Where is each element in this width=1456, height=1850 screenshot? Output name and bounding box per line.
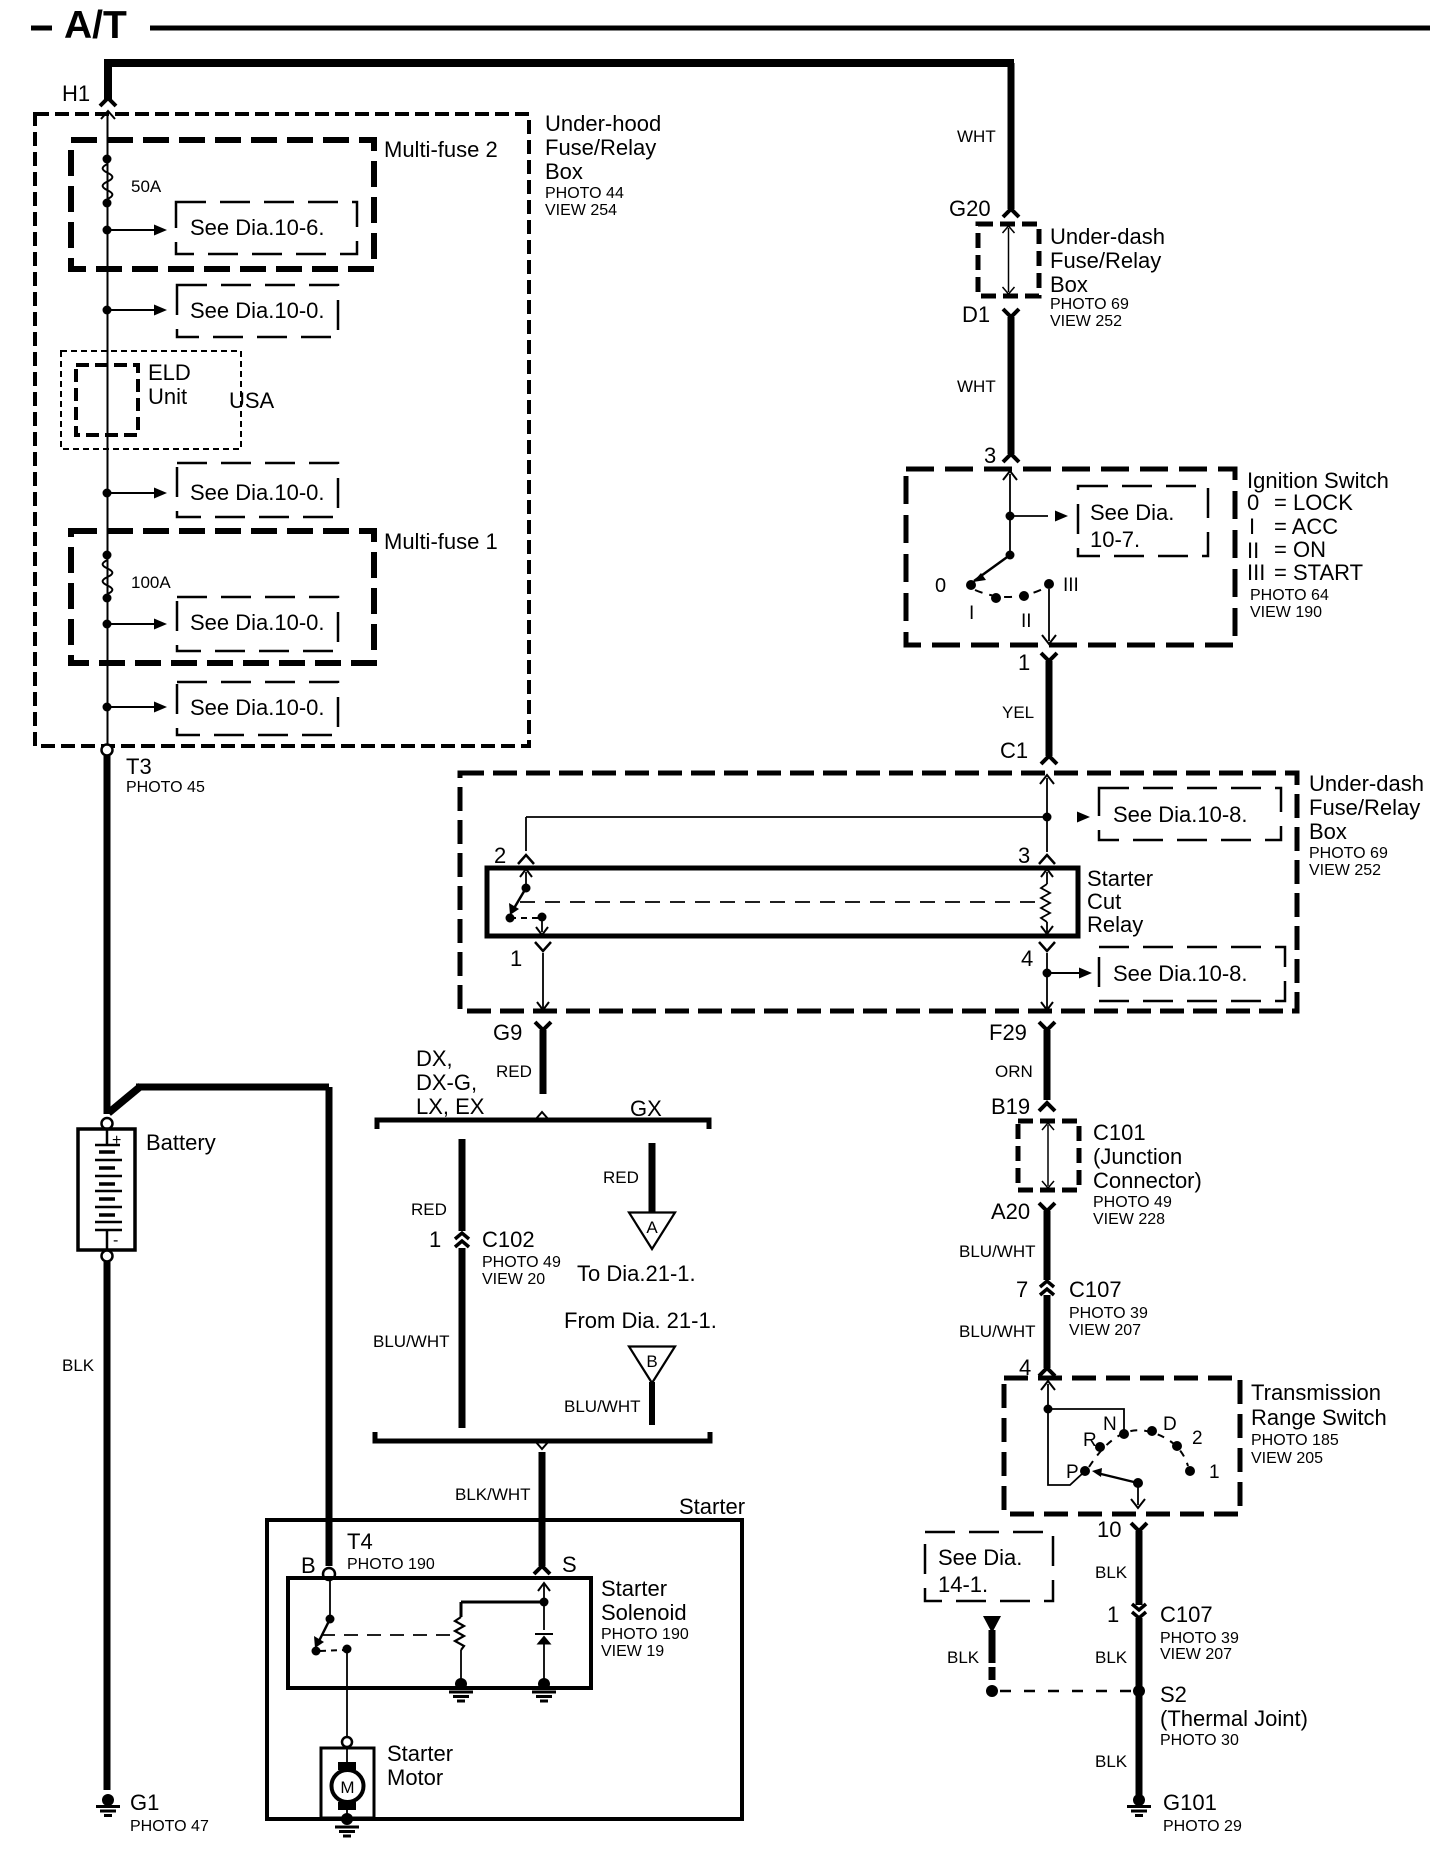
label S2 thermal joint xyxy=(1160,1682,1308,1749)
svg-text:BLK/WHT: BLK/WHT xyxy=(455,1485,531,1504)
wire battery feed trunk (thick top) xyxy=(104,59,1014,209)
svg-text:See Dia.10-8.: See Dia.10-8. xyxy=(1113,802,1248,827)
svg-text:III: III xyxy=(1247,560,1265,585)
connector C107 pin 1 xyxy=(1107,1602,1146,1627)
svg-text:Fuse/Relay: Fuse/Relay xyxy=(545,135,656,160)
wire BLK TRS to C107 xyxy=(1136,1531,1143,1605)
svg-text:Motor: Motor xyxy=(387,1765,443,1790)
svg-text:BLK: BLK xyxy=(1095,1563,1128,1582)
svg-text:-: - xyxy=(113,1232,118,1249)
svg-text:PHOTO 190: PHOTO 190 xyxy=(347,1556,435,1573)
relay pin 2 xyxy=(494,843,534,868)
svg-text:+: + xyxy=(112,1132,121,1149)
svg-text:10: 10 xyxy=(1097,1517,1121,1542)
svg-text:N: N xyxy=(1103,1414,1117,1435)
ignition switch box xyxy=(906,469,1235,645)
starter cut relay switch xyxy=(506,869,549,935)
see dia 10-0 box first xyxy=(177,285,338,337)
svg-text:DX-G,: DX-G, xyxy=(416,1070,477,1095)
connector G9 xyxy=(493,1020,551,1045)
svg-text:VIEW 20: VIEW 20 xyxy=(482,1271,545,1288)
svg-text:14-1.: 14-1. xyxy=(938,1572,988,1597)
connector G20 xyxy=(949,196,1019,221)
wire WHT D1 to ignition xyxy=(1008,317,1015,454)
connector A20 xyxy=(991,1199,1055,1224)
see dia 10-6 box xyxy=(176,202,357,254)
wire dashed S2 joint xyxy=(1000,1690,1133,1693)
ignition contact 0 xyxy=(935,575,976,597)
svg-text:PHOTO 64: PHOTO 64 xyxy=(1250,587,1329,604)
svg-text:G101: G101 xyxy=(1163,1790,1217,1815)
label ELD unit xyxy=(148,360,191,409)
battery negative plate xyxy=(95,1230,122,1262)
svg-text:(Junction: (Junction xyxy=(1093,1144,1182,1169)
node branch to dia 10-0 fourth xyxy=(103,703,112,712)
label DX DX-G LX EX xyxy=(416,1046,485,1119)
ignition contact II xyxy=(1019,591,1032,632)
svg-text:PHOTO 69: PHOTO 69 xyxy=(1309,845,1388,862)
label C101 junction connector xyxy=(1093,1120,1202,1228)
svg-text:1: 1 xyxy=(1018,650,1030,675)
connector C107 pin 7 xyxy=(1016,1277,1054,1302)
terminal S starter xyxy=(534,1552,577,1577)
svg-text:A/T: A/T xyxy=(64,4,127,47)
wire coil to S branch xyxy=(461,1601,544,1604)
TRS contact N xyxy=(1103,1414,1129,1439)
svg-text:T3: T3 xyxy=(126,754,152,779)
svg-text:BLK: BLK xyxy=(62,1356,95,1375)
svg-text:II: II xyxy=(1021,611,1032,632)
svg-text:1: 1 xyxy=(1107,1602,1119,1627)
starter solenoid box xyxy=(288,1578,591,1688)
svg-text:= LOCK: = LOCK xyxy=(1274,490,1353,515)
svg-text:2: 2 xyxy=(494,843,506,868)
svg-text:See Dia.10-0.: See Dia.10-0. xyxy=(190,480,325,505)
ignition contact I xyxy=(969,593,1001,624)
svg-text:From Dia. 21-1.: From Dia. 21-1. xyxy=(564,1308,717,1333)
wire arrow to see dia 10-0 second xyxy=(107,488,167,499)
wire S2 to G101 BLK xyxy=(1136,1694,1143,1795)
svg-text:= ON: = ON xyxy=(1274,537,1326,562)
svg-text:See Dia.: See Dia. xyxy=(938,1545,1022,1570)
see dia 10-0 box second xyxy=(177,463,338,517)
starter box xyxy=(267,1520,742,1819)
svg-text:Box: Box xyxy=(1309,819,1347,844)
connector C1 xyxy=(1000,738,1057,764)
svg-text:Relay: Relay xyxy=(1087,912,1143,937)
svg-text:Unit: Unit xyxy=(148,384,187,409)
svg-text:S2: S2 xyxy=(1160,1682,1187,1707)
ground starter motor xyxy=(335,1813,359,1836)
svg-text:A: A xyxy=(646,1218,658,1237)
TRS contact P xyxy=(1066,1462,1090,1483)
TRS contact R xyxy=(1083,1430,1105,1452)
off-page triangle A to dia 21-1 xyxy=(629,1213,675,1250)
svg-text:WHT: WHT xyxy=(957,127,996,146)
label ignition switch legend xyxy=(1247,468,1389,621)
solenoid S internal wire xyxy=(538,1583,550,1630)
wire G9 RED xyxy=(540,1030,547,1094)
wire battery positive branch to starter B xyxy=(109,1086,330,1566)
under-hood fuse/relay box xyxy=(35,114,529,746)
wire stub from dia 14-1 BLK xyxy=(983,1616,1001,1680)
wire ignition III to pin 1 xyxy=(1042,589,1056,644)
wire GX branch RED xyxy=(649,1143,656,1212)
svg-text:VIEW 205: VIEW 205 xyxy=(1251,1450,1323,1467)
svg-text:Under-dash: Under-dash xyxy=(1309,771,1424,796)
svg-text:To Dia.21-1.: To Dia.21-1. xyxy=(577,1261,696,1286)
wire YEL xyxy=(1046,661,1053,756)
fuse 50A xyxy=(103,155,162,208)
TRS wire to P side xyxy=(1048,1409,1083,1485)
TRS selector arm xyxy=(1092,1468,1143,1488)
wire F29 ORN xyxy=(1044,1030,1051,1100)
svg-text:Solenoid: Solenoid xyxy=(601,1600,687,1625)
solenoid coil xyxy=(455,1602,464,1682)
starter motor box xyxy=(321,1748,374,1818)
svg-text:Connector): Connector) xyxy=(1093,1168,1202,1193)
wire C102 branch RED xyxy=(459,1139,466,1231)
svg-text:PHOTO 69: PHOTO 69 xyxy=(1050,296,1129,313)
label C107 upper xyxy=(1069,1277,1148,1339)
label C102 xyxy=(482,1227,561,1288)
svg-text:VIEW 228: VIEW 228 xyxy=(1093,1211,1165,1228)
see dia 10-8 box upper xyxy=(1099,788,1281,840)
svg-text:Range Switch: Range Switch xyxy=(1251,1405,1387,1430)
svg-text:Starter: Starter xyxy=(601,1576,667,1601)
pin 1 ignition switch xyxy=(1018,650,1057,675)
terminal B starter xyxy=(301,1553,335,1580)
relay pin 1 xyxy=(510,942,551,1010)
svg-text:T4: T4 xyxy=(347,1529,373,1554)
svg-text:100A: 100A xyxy=(131,573,171,592)
ignition contact III xyxy=(1044,575,1079,596)
svg-text:Multi-fuse 2: Multi-fuse 2 xyxy=(384,137,498,162)
TRS contact D xyxy=(1147,1414,1177,1436)
solenoid dashed actuation link xyxy=(321,1634,452,1636)
svg-text:BLU/WHT: BLU/WHT xyxy=(959,1242,1036,1261)
svg-text:0: 0 xyxy=(1247,490,1259,515)
relay pin 4 xyxy=(1021,942,1055,1010)
svg-text:F29: F29 xyxy=(989,1020,1027,1045)
svg-text:C101: C101 xyxy=(1093,1120,1146,1145)
svg-text:VIEW 207: VIEW 207 xyxy=(1069,1322,1141,1339)
svg-text:PHOTO 190: PHOTO 190 xyxy=(601,1626,689,1643)
svg-text:PHOTO 49: PHOTO 49 xyxy=(1093,1194,1172,1211)
node S2 thermal joint xyxy=(1133,1685,1145,1697)
label G101 xyxy=(1163,1790,1242,1835)
node branch to dia 10-8 upper xyxy=(1043,813,1052,822)
svg-text:See Dia.10-0.: See Dia.10-0. xyxy=(190,610,325,635)
label G1 xyxy=(130,1790,209,1835)
svg-text:See Dia.: See Dia. xyxy=(1090,500,1174,525)
transmission range switch box xyxy=(1004,1378,1240,1514)
TRS pin4 wire in xyxy=(1041,1381,1055,1407)
svg-text:I: I xyxy=(1249,514,1255,539)
svg-text:BLU/WHT: BLU/WHT xyxy=(959,1322,1036,1341)
connector B19 xyxy=(991,1094,1055,1119)
svg-text:= ACC: = ACC xyxy=(1274,514,1338,539)
see dia 14-1 box xyxy=(925,1532,1053,1601)
svg-text:BLK: BLK xyxy=(1095,1752,1128,1771)
svg-text:= START: = START xyxy=(1274,560,1363,585)
svg-text:ORN: ORN xyxy=(995,1062,1033,1081)
svg-text:M: M xyxy=(340,1778,354,1797)
battery plates xyxy=(95,1152,122,1222)
TRS contact 1 xyxy=(1185,1462,1220,1483)
ELD unit dotted box xyxy=(61,351,241,449)
svg-text:G9: G9 xyxy=(493,1020,522,1045)
label starter solenoid xyxy=(601,1576,689,1660)
svg-text:Starter: Starter xyxy=(387,1741,453,1766)
starter motor terminal xyxy=(342,1737,352,1747)
starter cut relay coil xyxy=(1041,869,1053,934)
svg-text:A20: A20 xyxy=(991,1199,1030,1224)
svg-text:Fuse/Relay: Fuse/Relay xyxy=(1050,248,1161,273)
wire arrow to see dia 10-8 upper xyxy=(1077,812,1090,823)
svg-text:PHOTO 29: PHOTO 29 xyxy=(1163,1818,1242,1835)
wire under-hood vertical feed (thin) xyxy=(107,113,109,745)
svg-text:ELD: ELD xyxy=(148,360,191,385)
svg-text:Box: Box xyxy=(1050,272,1088,297)
svg-text:Transmission: Transmission xyxy=(1251,1380,1381,1405)
solenoid contact from B xyxy=(312,1580,335,1656)
svg-text:VIEW 207: VIEW 207 xyxy=(1160,1646,1232,1663)
TRS node xyxy=(1044,1405,1053,1414)
bus models bottom xyxy=(375,1432,710,1449)
svg-text:PHOTO 44: PHOTO 44 xyxy=(545,185,624,202)
svg-text:3: 3 xyxy=(984,443,996,468)
svg-text:III: III xyxy=(1063,575,1079,596)
wire branch to relay pin 2 xyxy=(526,817,1047,851)
svg-text:RED: RED xyxy=(603,1168,639,1187)
label C107 lower xyxy=(1160,1602,1239,1663)
svg-text:BLK: BLK xyxy=(947,1648,980,1667)
ground G1 xyxy=(96,1794,120,1816)
off-page triangle B from dia 21-1 xyxy=(629,1347,675,1384)
see dia 10-7 box xyxy=(1078,486,1208,556)
svg-text:G20: G20 xyxy=(949,196,991,221)
svg-text:B19: B19 xyxy=(991,1094,1030,1119)
svg-text:D: D xyxy=(1163,1414,1177,1435)
node branch to dia 10-8 lower xyxy=(1043,969,1052,978)
starter cut relay dashed link xyxy=(520,901,1036,903)
svg-text:See Dia.10-6.: See Dia.10-6. xyxy=(190,215,325,240)
svg-text:B: B xyxy=(646,1352,657,1371)
junction connector C101 box xyxy=(1018,1121,1079,1190)
svg-text:C107: C107 xyxy=(1160,1602,1213,1627)
wire arrow to see dia 10-8 lower xyxy=(1047,968,1092,979)
svg-text:Multi-fuse 1: Multi-fuse 1 xyxy=(384,529,498,554)
wire arrow to see dia 10-6 xyxy=(107,225,167,236)
solenoid moving contact xyxy=(320,1645,352,1654)
svg-text:See Dia.10-0.: See Dia.10-0. xyxy=(190,298,325,323)
connector C102 pin 1 xyxy=(429,1227,469,1252)
svg-text:Fuse/Relay: Fuse/Relay xyxy=(1309,795,1420,820)
ground G101 xyxy=(1127,1794,1151,1816)
svg-text:H1: H1 xyxy=(62,81,90,106)
terminal T4 label xyxy=(347,1529,435,1573)
svg-text:1: 1 xyxy=(510,946,522,971)
svg-text:3: 3 xyxy=(1018,843,1030,868)
svg-text:G1: G1 xyxy=(130,1790,159,1815)
multi-fuse 2 box xyxy=(71,140,374,269)
ignition switch internals xyxy=(973,471,1068,582)
connector box G20-D1 under-dash xyxy=(978,224,1039,296)
wire battery negative BLK xyxy=(104,1262,111,1790)
wire BLK/WHT to starter S xyxy=(539,1452,546,1566)
svg-text:See Dia.10-0.: See Dia.10-0. xyxy=(190,695,325,720)
connector 10 TRS xyxy=(1097,1517,1147,1542)
starter cut relay box xyxy=(487,868,1078,936)
fuse 100A xyxy=(103,551,172,603)
wire A20 BLU/WHT xyxy=(1044,1211,1051,1280)
svg-text:S: S xyxy=(562,1552,577,1577)
wire arrow to see dia 10-0 third xyxy=(107,619,167,630)
svg-text:2: 2 xyxy=(1192,1428,1203,1449)
wire C1 into box to relay pin 3 xyxy=(1040,775,1054,852)
label starter motor xyxy=(387,1741,453,1790)
wire C102 BLU/WHT down xyxy=(459,1248,466,1428)
svg-text:RED: RED xyxy=(411,1200,447,1219)
svg-text:PHOTO 39: PHOTO 39 xyxy=(1160,1630,1239,1647)
ELD unit inner box xyxy=(76,365,138,435)
title A/T xyxy=(31,4,1430,47)
svg-text:I: I xyxy=(969,603,974,624)
svg-text:C102: C102 xyxy=(482,1227,535,1252)
svg-text:VIEW 252: VIEW 252 xyxy=(1309,862,1381,879)
svg-text:C1: C1 xyxy=(1000,738,1028,763)
svg-text:Starter: Starter xyxy=(1087,866,1153,891)
svg-text:P: P xyxy=(1066,1462,1079,1483)
see dia 10-0 box third xyxy=(177,597,338,651)
svg-text:USA: USA xyxy=(229,388,275,413)
svg-text:YEL: YEL xyxy=(1002,703,1034,722)
TRS wire to N contact xyxy=(1048,1409,1124,1431)
svg-text:(Thermal Joint): (Thermal Joint) xyxy=(1160,1706,1308,1731)
connector D1 xyxy=(962,302,1019,327)
ignition contact arc xyxy=(975,588,1045,597)
see dia 10-0 box fourth xyxy=(177,682,338,735)
connector F29 xyxy=(989,1020,1055,1045)
svg-text:4: 4 xyxy=(1021,946,1033,971)
svg-text:VIEW 19: VIEW 19 xyxy=(601,1643,664,1660)
svg-text:50A: 50A xyxy=(131,177,162,196)
svg-text:BLU/WHT: BLU/WHT xyxy=(373,1332,450,1351)
under-dash fuse/relay box lower xyxy=(460,773,1297,1011)
TRS contact arc dashed xyxy=(1089,1430,1188,1467)
wire T3 to battery (thick) xyxy=(104,756,111,1114)
svg-text:D1: D1 xyxy=(962,302,990,327)
svg-text:0: 0 xyxy=(935,575,946,597)
svg-text:1: 1 xyxy=(1209,1462,1220,1483)
svg-text:Under-dash: Under-dash xyxy=(1050,224,1165,249)
battery xyxy=(78,1118,135,1250)
wire arrow to see dia 10-0 first xyxy=(107,305,167,316)
svg-text:Battery: Battery xyxy=(146,1130,216,1155)
svg-text:PHOTO 39: PHOTO 39 xyxy=(1069,1305,1148,1322)
ground solenoid coil xyxy=(449,1678,473,1701)
svg-text:B: B xyxy=(301,1553,316,1578)
relay pin 3 xyxy=(1018,843,1055,868)
svg-text:RED: RED xyxy=(496,1062,532,1081)
label starter cut relay xyxy=(1087,866,1153,937)
node branch to dia 10-6 xyxy=(103,226,112,235)
svg-text:GX: GX xyxy=(630,1096,662,1121)
svg-text:LX, EX: LX, EX xyxy=(416,1094,485,1119)
node branch to dia 10-0 second xyxy=(103,489,112,498)
svg-text:10-7.: 10-7. xyxy=(1090,527,1140,552)
pin 3 ignition switch xyxy=(984,443,1019,468)
svg-text:1: 1 xyxy=(429,1227,441,1252)
pin 4 transmission range switch xyxy=(1019,1355,1055,1380)
starter motor xyxy=(332,1747,364,1817)
node H1 xyxy=(62,81,116,119)
see dia 10-8 box lower xyxy=(1099,947,1285,1001)
svg-text:PHOTO 185: PHOTO 185 xyxy=(1251,1432,1339,1449)
svg-text:BLK: BLK xyxy=(1095,1648,1128,1667)
label under-dash fuse/relay box upper xyxy=(1050,224,1165,330)
svg-text:BLU/WHT: BLU/WHT xyxy=(564,1397,641,1416)
svg-text:VIEW 254: VIEW 254 xyxy=(545,202,617,219)
multi-fuse 1 box xyxy=(71,531,374,663)
svg-text:R: R xyxy=(1083,1430,1097,1451)
svg-text:Box: Box xyxy=(545,159,583,184)
terminal T3 xyxy=(102,745,205,797)
node S2 left xyxy=(986,1685,998,1697)
svg-text:7: 7 xyxy=(1016,1277,1028,1302)
svg-text:PHOTO 30: PHOTO 30 xyxy=(1160,1732,1239,1749)
bus DX models top xyxy=(377,1112,709,1129)
wire below triangle B BLU/WHT xyxy=(649,1382,655,1425)
node branch to dia 10-0 first xyxy=(103,306,112,315)
wire pin7 to pin4 BLU/WHT xyxy=(1044,1295,1051,1368)
svg-text:VIEW 252: VIEW 252 xyxy=(1050,313,1122,330)
svg-text:PHOTO 47: PHOTO 47 xyxy=(130,1818,209,1835)
svg-text:C107: C107 xyxy=(1069,1277,1122,1302)
svg-text:WHT: WHT xyxy=(957,377,996,396)
wire C107 to S2 BLK xyxy=(1136,1618,1143,1694)
TRS contact 2 xyxy=(1172,1428,1203,1451)
svg-text:Under-hood: Under-hood xyxy=(545,111,661,136)
wire arrow to see dia 10-0 fourth xyxy=(107,702,167,713)
TRS pivot wire out xyxy=(1131,1483,1145,1508)
svg-text:Starter: Starter xyxy=(679,1494,745,1519)
label transmission range switch xyxy=(1251,1380,1387,1467)
svg-text:PHOTO 45: PHOTO 45 xyxy=(126,779,205,796)
svg-text:VIEW 190: VIEW 190 xyxy=(1250,604,1322,621)
label under-hood box xyxy=(545,111,661,219)
node branch to dia 10-0 third xyxy=(103,620,112,629)
svg-text:Cut: Cut xyxy=(1087,889,1121,914)
svg-text:See Dia.10-8.: See Dia.10-8. xyxy=(1113,961,1248,986)
wire solenoid to starter motor xyxy=(346,1653,348,1737)
svg-text:DX,: DX, xyxy=(416,1046,453,1071)
svg-text:PHOTO 49: PHOTO 49 xyxy=(482,1254,561,1271)
label under-dash fuse/relay box lower xyxy=(1309,771,1424,879)
diode solenoid xyxy=(535,1634,553,1682)
ground solenoid diode xyxy=(532,1678,556,1701)
